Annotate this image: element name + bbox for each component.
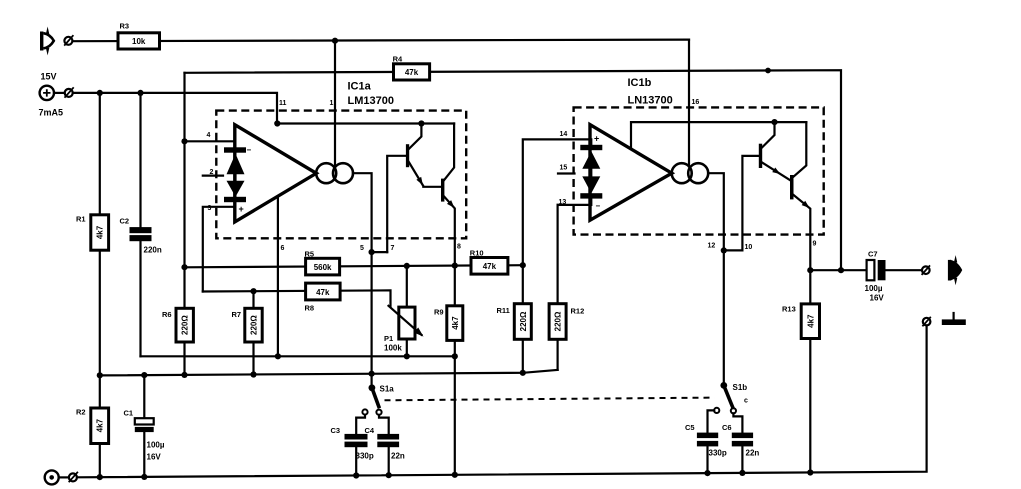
Q3 emitter arrow [772, 167, 782, 176]
transistor Q2 collector [444, 124, 454, 181]
svg-text:220Ω: 220Ω [519, 311, 528, 331]
svg-text:22n: 22n [746, 449, 760, 458]
node: pin 11 / inner line [274, 120, 280, 126]
wire 15V rail to pin 11 [73, 93, 277, 124]
resistor R6 [162, 308, 193, 342]
svg-text:8: 8 [457, 244, 461, 251]
capacitor C5 [685, 410, 727, 473]
15V open terminal [65, 87, 74, 97]
svg-text:R7: R7 [232, 310, 242, 319]
node: Q1 collector / inner line [418, 120, 424, 126]
transistor Q3 base bar [759, 144, 762, 168]
svg-text:P1: P1 [384, 334, 393, 343]
svg-text:220Ω: 220Ω [250, 315, 259, 335]
resistor R4 [393, 55, 430, 81]
wire pin 1 drop to IC1a OTA [334, 41, 336, 169]
wire R8 line from pin3 column to P1 wiper [203, 290, 391, 306]
wire input to R3 and R3 line to pin16 drop [73, 40, 689, 42]
capacitor C4 [365, 415, 405, 475]
svg-text:10k: 10k [132, 37, 146, 46]
resistor R9 [434, 266, 463, 475]
IC1a output current-source circles [316, 163, 353, 183]
node: R6 bottom [181, 372, 187, 378]
svg-text:R13: R13 [782, 305, 796, 314]
capacitor C6 [722, 413, 759, 473]
node: R10/R11/pin14 junction [520, 262, 526, 268]
svg-text:R3: R3 [120, 22, 130, 31]
svg-text:100µ: 100µ [865, 284, 883, 293]
svg-text:IC1b: IC1b [628, 77, 652, 89]
svg-text:15: 15 [560, 165, 568, 172]
transistor Q4 base bar [790, 175, 794, 199]
svg-text:R10: R10 [470, 249, 484, 258]
resistor R2 [76, 408, 109, 444]
svg-text:220n: 220n [144, 246, 162, 255]
svg-text:4k7: 4k7 [96, 225, 105, 239]
wire left vertical x=184.5 from R4 line down through R6 [183, 73, 185, 375]
wire IC1b diode mid lead [590, 169, 592, 177]
svg-text:2: 2 [210, 169, 214, 176]
node: rail R2 [97, 474, 103, 480]
capacitor C1 [124, 375, 165, 477]
wire pin 6 from triangle edge down to C2 line [277, 198, 279, 356]
IC1b output current-source circles [672, 163, 709, 183]
svg-text:R9: R9 [434, 308, 444, 317]
svg-text:560k: 560k [314, 263, 332, 272]
resistor R12 [549, 205, 584, 370]
output junction line [810, 269, 866, 271]
svg-text:10: 10 [745, 244, 753, 251]
svg-text:16V: 16V [870, 294, 885, 303]
resistor R7 [232, 291, 263, 374]
svg-text:R8: R8 [305, 304, 315, 313]
node: R4 column output junction [838, 267, 844, 273]
node: C1 top [141, 372, 147, 378]
svg-text:C7: C7 [868, 250, 878, 259]
svg-text:R12: R12 [571, 306, 585, 315]
node: pin 6 / C2 line [275, 353, 281, 359]
svg-text:16V: 16V [147, 453, 162, 462]
svg-text:13: 13 [559, 199, 567, 206]
svg-text:220Ω: 220Ω [181, 315, 190, 335]
op-amp U2 triangle (IC1b OTA) [590, 125, 672, 221]
Q2 emitter arrow [447, 200, 457, 210]
wire pin 14 riser [523, 139, 591, 265]
node: R9 column / C2 line [452, 353, 458, 359]
node: R5 line left end [181, 264, 187, 270]
transistor Q1 emitter to Q2 base [409, 162, 441, 187]
wire P1 top lead [406, 266, 408, 307]
pin 13 wire [558, 204, 591, 206]
input arrow symbol [40, 27, 54, 56]
svg-text:7: 7 [391, 245, 395, 252]
node: R7 top on R8 line [250, 288, 256, 294]
IC1a output wire to pin 5 [353, 173, 372, 388]
svg-text:C6: C6 [722, 423, 732, 432]
svg-text:+: + [594, 134, 599, 144]
node: rail C6 [739, 470, 745, 476]
wire pin5-pin7 staple [372, 251, 388, 253]
wire plus terminal link [54, 92, 65, 94]
resistor R8 [305, 283, 341, 312]
wire pin12-pin10 staple [724, 249, 743, 251]
15V plus terminal [40, 86, 54, 100]
svg-text:C2: C2 [120, 217, 130, 226]
switch S1a [362, 384, 394, 414]
node: P1 top on R5 line [404, 263, 410, 269]
svg-text:3: 3 [208, 205, 212, 212]
transistor Q4 emitter (pin 9) [793, 195, 810, 270]
svg-text:16: 16 [692, 99, 700, 106]
node: 15V/R1 [97, 90, 103, 96]
capacitor C2 [120, 93, 162, 356]
svg-text:7mA5: 7mA5 [39, 108, 64, 118]
node: R7 bottom [250, 371, 256, 377]
transistor Q4 collector [793, 122, 806, 177]
svg-text:4k7: 4k7 [96, 418, 105, 432]
node: R1/R2 column on lower line [97, 372, 103, 378]
resistor R11 [497, 265, 532, 373]
svg-text:47k: 47k [483, 262, 497, 271]
svg-text:22n: 22n [391, 452, 405, 461]
node: pin 8 / R9 on R5 line [452, 263, 458, 269]
wire R1/R2 column [99, 93, 101, 477]
node: R3 line / pin 1 junction [332, 38, 338, 44]
svg-text:R1: R1 [76, 215, 86, 224]
svg-text:R11: R11 [497, 306, 510, 315]
node: pin 12/10 junction [721, 247, 727, 253]
node: rail C4 [386, 472, 392, 478]
node: 15V/C2 [137, 90, 143, 96]
IC1a dashed box [216, 111, 466, 239]
node: P1 bottom / C2 line [404, 353, 410, 359]
wire Q1 base to pin 7 [387, 156, 406, 252]
node: rail C3 [353, 472, 359, 478]
svg-text:c: c [744, 398, 748, 405]
svg-text:C1: C1 [124, 409, 134, 418]
wire C2 bias line to R9 [141, 355, 456, 357]
svg-text:12: 12 [708, 243, 716, 250]
Q4 emitter arrow [802, 201, 812, 210]
svg-text:100µ: 100µ [147, 441, 165, 450]
svg-text:4k7: 4k7 [451, 316, 460, 330]
resistor R1 [76, 215, 109, 251]
wire pin 16 drop to IC1b OTA [688, 40, 690, 167]
transistor Q3 collector [762, 122, 775, 147]
svg-text:5: 5 [360, 245, 364, 252]
wire P1 bottom lead [406, 339, 408, 356]
transistor Q3 emitter to Q4 base [762, 162, 790, 180]
node: rail C1 [141, 474, 147, 480]
svg-text:6: 6 [281, 245, 285, 252]
transistor Q1 collector [409, 124, 422, 150]
svg-text:IC1a: IC1a [348, 80, 372, 92]
svg-text:+: + [239, 204, 244, 214]
wire lower bias line [100, 370, 558, 376]
dashed coupling line S1a to S1b [385, 398, 715, 401]
output terminal lower [922, 317, 930, 327]
svg-text:S1a: S1a [380, 385, 395, 394]
potentiometer P1 [384, 306, 426, 353]
node: pin 5/7 junction [369, 249, 375, 255]
op-amp U1 triangle (IC1a OTA) [235, 125, 316, 222]
node: Q3 collector / inner line [771, 119, 777, 125]
svg-text:47k: 47k [316, 288, 330, 297]
input terminal [64, 35, 73, 45]
svg-text:−: − [247, 146, 252, 155]
diode D4 (IC1b lower linearizing diode) [580, 176, 602, 205]
svg-text:330p: 330p [709, 449, 727, 458]
svg-text:LM13700: LM13700 [348, 95, 394, 107]
svg-text:47k: 47k [405, 68, 419, 77]
output arrow symbol [948, 255, 962, 285]
svg-text:R5: R5 [305, 250, 315, 259]
diode D2 (IC1a lower linearizing diode) [224, 181, 246, 202]
svg-text:15V: 15V [41, 72, 57, 82]
pin 3 wire down-left to R8 line [203, 202, 235, 292]
svg-text:330p: 330p [356, 452, 374, 461]
capacitor C3 [331, 415, 374, 476]
svg-text:14: 14 [560, 131, 568, 138]
svg-text:C4: C4 [365, 426, 375, 435]
pin 15 stub [558, 172, 575, 174]
node: rail R9 [452, 472, 458, 478]
svg-text:100k: 100k [384, 344, 402, 353]
wire R4 line with corner down to output line [185, 70, 842, 270]
IC1b output wire to pin 12 [708, 173, 724, 385]
node: R4 line dot [765, 68, 771, 74]
IC1a inner collector supply line [277, 122, 454, 124]
wire pin 4 line [185, 141, 235, 147]
resistor R5 [305, 250, 340, 275]
svg-text:R6: R6 [162, 310, 172, 319]
node: pin9/R13 output junction [807, 267, 813, 273]
svg-text:4: 4 [207, 132, 211, 139]
svg-text:C5: C5 [685, 423, 695, 432]
wire C7 to output terminal [886, 269, 922, 271]
transistor Q1 base bar [406, 144, 409, 167]
transistor Q2 emitter (pin 8) [444, 197, 455, 266]
svg-text:4k7: 4k7 [806, 314, 815, 328]
resistor R3 [118, 22, 160, 50]
svg-text:11: 11 [279, 100, 287, 107]
Q1 emitter arrow [416, 177, 425, 187]
svg-text:LN13700: LN13700 [628, 95, 673, 107]
svg-text:−: − [596, 202, 601, 211]
wire Q3 base to pin 10 [742, 156, 758, 251]
pin 2 stub [203, 175, 223, 177]
node: rail C5 [704, 470, 710, 476]
ground symbol [942, 313, 966, 325]
diode D1 (IC1a upper linearizing diode) [224, 147, 246, 174]
svg-text:S1b: S1b [733, 383, 748, 392]
node: pin 4 branch [181, 138, 187, 144]
svg-text:220Ω: 220Ω [554, 311, 563, 331]
svg-text:C3: C3 [331, 426, 341, 435]
resistor R10 [470, 249, 508, 275]
switch S1b [714, 382, 748, 413]
svg-text:R2: R2 [76, 408, 86, 417]
wire diode mid lead [234, 174, 236, 181]
node: R11 bottom [520, 370, 526, 376]
svg-text:9: 9 [813, 241, 817, 248]
transistor Q2 base bar [441, 179, 444, 202]
svg-text:1: 1 [330, 100, 334, 107]
output terminal upper [922, 265, 930, 275]
0V terminal [45, 470, 78, 484]
resistor R13 [782, 270, 820, 472]
capacitor C7 [865, 250, 886, 303]
bottom ground rail [77, 326, 927, 478]
IC1b inner collector line with drop to triangle [631, 122, 806, 149]
node: S1a column on lower line [369, 371, 375, 377]
svg-text:R4: R4 [393, 55, 403, 64]
IC1b dashed box [574, 107, 824, 234]
wire R5 line [185, 265, 523, 267]
node: rail R13 [807, 469, 813, 475]
diode D3 (IC1b upper linearizing diode) [580, 139, 602, 168]
